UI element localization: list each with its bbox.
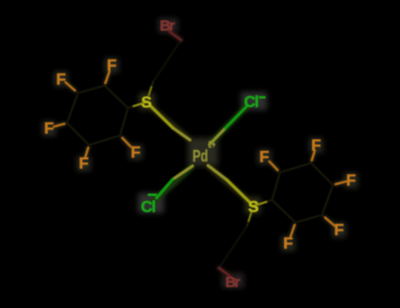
svg-text:2+: 2+ <box>208 140 215 150</box>
bond Pd-Cl2 Cl half <box>157 180 173 199</box>
ring 2 bond C4'-C5' <box>311 163 333 185</box>
ring 2 bond C1'-C2' <box>272 200 296 223</box>
chain 1 bond Ca-Cb <box>153 40 181 82</box>
halo behind Br1 label <box>158 18 178 33</box>
svg-text:F: F <box>44 121 54 138</box>
ring 1 bond C4-C5 <box>67 123 89 145</box>
ring 2 bond C6'-C1' <box>272 173 280 201</box>
bond Pd-S2 Pd half <box>208 166 227 181</box>
bond C6'-Fo' <box>278 170 280 173</box>
atom label Cl2 minus <box>141 194 157 216</box>
svg-text:F: F <box>283 236 293 253</box>
svg-text:Cl: Cl <box>244 94 259 111</box>
halo behind Br2 label <box>222 273 244 288</box>
atom label Cl1 minus <box>244 94 265 111</box>
halos behind F labels <box>105 58 119 73</box>
bond Pd-S1 fuzz <box>150 106 189 139</box>
bond C4-Fl <box>64 122 67 125</box>
bond C5'-Ft' <box>310 160 313 163</box>
halo behind Cl1 label <box>241 92 267 110</box>
svg-text:F: F <box>334 222 344 239</box>
svg-text:S: S <box>248 199 259 216</box>
ring 2 bond C2'-C3' <box>296 215 323 223</box>
ring 1 bond C5-C6 <box>89 136 120 146</box>
bond Cb-Br1 <box>170 32 182 41</box>
svg-text:F: F <box>311 137 321 154</box>
svg-text:F: F <box>259 149 269 166</box>
bond C3-Ftl <box>75 90 78 93</box>
svg-text:S: S <box>141 95 152 112</box>
bond Pd-Cl1 Cl half <box>226 107 247 128</box>
svg-text:F: F <box>107 58 117 75</box>
bond C5-Fb <box>87 145 90 148</box>
svg-text:F: F <box>79 156 89 173</box>
svg-text:F: F <box>131 144 141 161</box>
bond S2-Ca' (chain) <box>248 213 251 223</box>
halo behind Cl2 label <box>138 193 164 213</box>
bond Pd-Cl2 Pd half <box>173 166 193 180</box>
bond Pd-S2 fuzz <box>209 167 250 203</box>
bond Pd-Cl1 fuzz <box>212 106 247 142</box>
ring 2 bond C3'-C4' <box>322 185 333 215</box>
halo behind S2 label <box>245 197 261 214</box>
bond C4'-Fr' <box>333 183 336 186</box>
bond Pd-Cl2 fuzz <box>153 167 192 202</box>
bond C3'-Fbr' <box>322 215 325 218</box>
svg-text:Pd: Pd <box>193 147 209 166</box>
ring 2 bond C5'-C6' <box>280 163 311 173</box>
chain 2 bond Ca'-Cb' <box>219 226 247 268</box>
bond Cb'-Br2 <box>219 268 231 277</box>
halo behind Pd label <box>188 138 218 166</box>
atom label Pd2+ <box>193 140 216 166</box>
bond Pd-S2 S half <box>227 180 250 202</box>
ring 1 bond C3-C4 <box>67 93 78 123</box>
bond S2-C1' (ring ipso) <box>254 201 269 206</box>
bond Pd-S1 S half <box>151 106 174 128</box>
bond Pd-S1 Pd half <box>173 128 190 140</box>
svg-text:F: F <box>346 172 356 189</box>
bond S1-Ca (chain) <box>149 86 152 96</box>
svg-text:Br: Br <box>160 18 175 35</box>
svg-text:Cl: Cl <box>141 199 156 216</box>
bond S1-C1 (ring ipso) <box>132 102 147 107</box>
bond C2-Ftop <box>103 83 106 86</box>
ring 1 bond C2-C3 <box>78 86 105 94</box>
ring 1 bond C1-C2 <box>105 86 129 109</box>
bond C2'-Fbot' <box>294 223 297 226</box>
svg-text:Br: Br <box>225 274 240 291</box>
bond C6-Fbr <box>120 136 122 139</box>
svg-text:F: F <box>56 71 66 88</box>
halo behind S1 label <box>139 93 155 110</box>
ring 1 bond C6-C1 <box>120 108 128 136</box>
bond Pd-Cl1 Pd half <box>210 128 226 145</box>
